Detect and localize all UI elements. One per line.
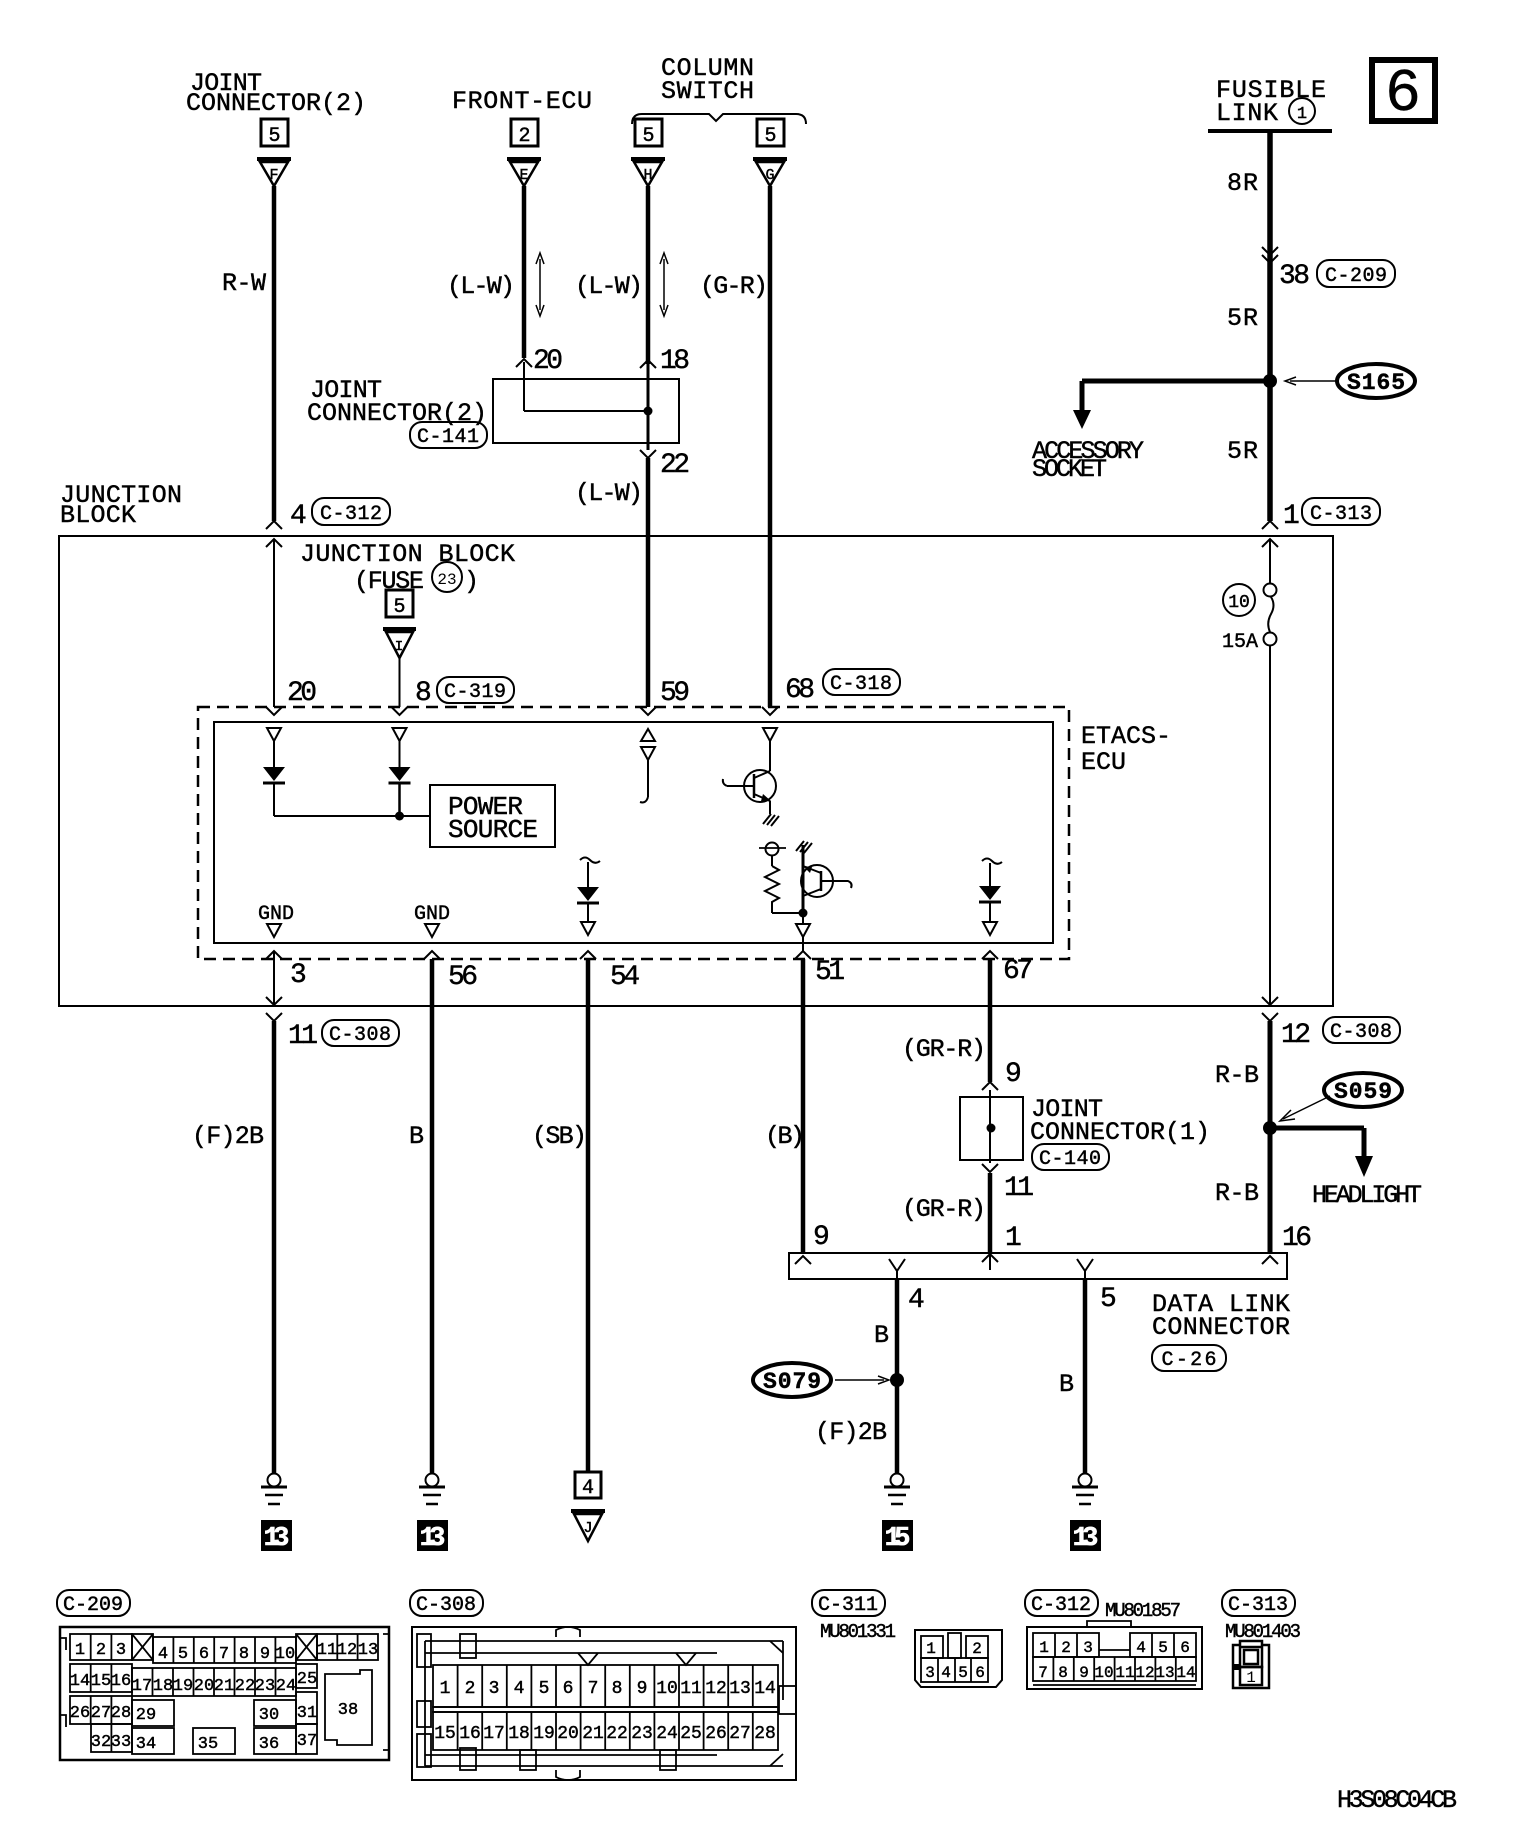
svg-text:24: 24 bbox=[656, 1724, 678, 1744]
svg-text:20: 20 bbox=[194, 1677, 214, 1696]
svg-text:5: 5 bbox=[764, 125, 776, 148]
svg-text:B: B bbox=[409, 1122, 424, 1151]
svg-text:4: 4 bbox=[1136, 1639, 1146, 1657]
svg-text:9: 9 bbox=[1079, 1664, 1089, 1682]
svg-text:G: G bbox=[765, 167, 774, 184]
svg-text:GND: GND bbox=[414, 903, 450, 926]
svg-text:2: 2 bbox=[1061, 1639, 1071, 1657]
svg-text:13: 13 bbox=[1073, 1524, 1099, 1554]
svg-text:5R: 5R bbox=[1227, 437, 1258, 466]
svg-text:8: 8 bbox=[239, 1645, 249, 1664]
svg-text:(L-W): (L-W) bbox=[575, 479, 643, 508]
svg-text:14: 14 bbox=[754, 1679, 776, 1699]
svg-text:2: 2 bbox=[96, 1641, 106, 1660]
svg-text:GND: GND bbox=[258, 903, 294, 926]
svg-text:C-313: C-313 bbox=[1228, 1594, 1288, 1617]
svg-text:3: 3 bbox=[489, 1679, 500, 1699]
svg-text:38: 38 bbox=[1279, 261, 1310, 292]
svg-text:5: 5 bbox=[539, 1679, 550, 1699]
svg-text:H3S08C04CB: H3S08C04CB bbox=[1337, 1786, 1457, 1815]
svg-text:(SB): (SB) bbox=[532, 1122, 587, 1151]
svg-text:R-W: R-W bbox=[222, 269, 266, 298]
svg-text:12: 12 bbox=[1135, 1664, 1154, 1682]
svg-text:32: 32 bbox=[91, 1733, 111, 1752]
svg-text:S079: S079 bbox=[763, 1369, 821, 1395]
svg-text:S059: S059 bbox=[1334, 1079, 1392, 1105]
svg-text:51: 51 bbox=[815, 957, 845, 988]
svg-text:8: 8 bbox=[612, 1679, 623, 1699]
svg-text:2: 2 bbox=[518, 125, 530, 148]
svg-text:): ) bbox=[464, 567, 479, 596]
svg-text:9: 9 bbox=[637, 1679, 648, 1699]
svg-text:33: 33 bbox=[111, 1733, 131, 1752]
svg-text:4: 4 bbox=[941, 1664, 951, 1682]
svg-text:ECU: ECU bbox=[1081, 748, 1126, 777]
svg-text:R-B: R-B bbox=[1215, 1061, 1259, 1090]
svg-text:56: 56 bbox=[448, 962, 478, 993]
svg-text:38: 38 bbox=[338, 1701, 358, 1720]
svg-text:C-312: C-312 bbox=[1031, 1594, 1091, 1617]
svg-text:3: 3 bbox=[116, 1641, 126, 1660]
svg-text:10: 10 bbox=[1228, 593, 1250, 613]
svg-text:1: 1 bbox=[75, 1641, 85, 1660]
svg-text:E: E bbox=[519, 167, 528, 184]
svg-text:26: 26 bbox=[705, 1724, 727, 1744]
svg-text:SOURCE: SOURCE bbox=[448, 815, 538, 845]
svg-text:13: 13 bbox=[420, 1524, 446, 1554]
svg-text:3: 3 bbox=[1083, 1639, 1093, 1657]
svg-text:(F)2B: (F)2B bbox=[192, 1122, 264, 1151]
svg-text:54: 54 bbox=[610, 962, 640, 993]
svg-text:28: 28 bbox=[111, 1704, 131, 1723]
svg-text:MU801403: MU801403 bbox=[1225, 1621, 1301, 1643]
svg-text:30: 30 bbox=[259, 1706, 279, 1725]
svg-text:1: 1 bbox=[440, 1679, 451, 1699]
svg-text:59: 59 bbox=[660, 678, 690, 709]
svg-text:(F)2B: (F)2B bbox=[815, 1418, 887, 1447]
svg-text:S165: S165 bbox=[1347, 370, 1405, 396]
svg-text:4: 4 bbox=[514, 1679, 525, 1699]
svg-text:C-209: C-209 bbox=[63, 1594, 123, 1617]
svg-text:2: 2 bbox=[972, 1640, 982, 1658]
svg-text:JUNCTION BLOCK: JUNCTION BLOCK bbox=[300, 540, 515, 569]
svg-text:7: 7 bbox=[588, 1679, 599, 1699]
svg-text:7: 7 bbox=[219, 1645, 229, 1664]
svg-text:23: 23 bbox=[437, 571, 456, 589]
svg-text:27: 27 bbox=[91, 1704, 111, 1723]
svg-text:12: 12 bbox=[337, 1641, 357, 1660]
svg-text:22: 22 bbox=[606, 1724, 628, 1744]
svg-text:C-318: C-318 bbox=[830, 673, 892, 696]
svg-text:5R: 5R bbox=[1227, 304, 1258, 333]
svg-text:13: 13 bbox=[1155, 1664, 1174, 1682]
svg-text:35: 35 bbox=[198, 1735, 218, 1754]
svg-text:1: 1 bbox=[1297, 105, 1307, 124]
svg-text:C-308: C-308 bbox=[329, 1024, 391, 1047]
svg-text:H: H bbox=[643, 167, 652, 184]
svg-text:C-308: C-308 bbox=[1330, 1021, 1392, 1044]
svg-text:F: F bbox=[269, 167, 278, 184]
svg-text:24: 24 bbox=[276, 1677, 296, 1696]
svg-text:ETACS-: ETACS- bbox=[1081, 722, 1171, 751]
svg-text:67: 67 bbox=[1003, 956, 1033, 987]
svg-text:B: B bbox=[874, 1321, 889, 1350]
svg-text:6: 6 bbox=[1385, 61, 1421, 129]
svg-text:3: 3 bbox=[290, 960, 307, 991]
svg-text:16: 16 bbox=[111, 1672, 131, 1691]
svg-text:6: 6 bbox=[975, 1664, 985, 1682]
svg-text:11: 11 bbox=[1115, 1664, 1134, 1682]
svg-text:21: 21 bbox=[582, 1724, 604, 1744]
svg-text:14: 14 bbox=[70, 1672, 90, 1691]
svg-text:C-312: C-312 bbox=[320, 503, 382, 526]
svg-text:16: 16 bbox=[459, 1724, 481, 1744]
svg-text:5: 5 bbox=[642, 125, 654, 148]
svg-text:3: 3 bbox=[925, 1664, 935, 1682]
svg-text:C-319: C-319 bbox=[444, 681, 506, 704]
svg-text:5: 5 bbox=[178, 1645, 188, 1664]
svg-text:1: 1 bbox=[1005, 1223, 1022, 1254]
svg-text:18: 18 bbox=[508, 1724, 530, 1744]
svg-text:1: 1 bbox=[926, 1640, 936, 1658]
svg-text:MU801331: MU801331 bbox=[820, 1621, 896, 1643]
svg-text:J: J bbox=[583, 1520, 592, 1537]
svg-text:19: 19 bbox=[533, 1724, 555, 1744]
svg-text:C-308: C-308 bbox=[416, 1594, 476, 1617]
svg-text:11: 11 bbox=[680, 1679, 702, 1699]
svg-text:FRONT-ECU: FRONT-ECU bbox=[452, 87, 592, 116]
svg-text:5: 5 bbox=[268, 125, 280, 148]
svg-text:31: 31 bbox=[297, 1704, 317, 1723]
svg-text:5: 5 bbox=[1158, 1639, 1168, 1657]
svg-text:(L-W): (L-W) bbox=[447, 272, 515, 301]
svg-text:6: 6 bbox=[199, 1645, 209, 1664]
svg-text:10: 10 bbox=[275, 1645, 295, 1664]
svg-text:MU801857: MU801857 bbox=[1105, 1600, 1181, 1622]
svg-text:13: 13 bbox=[264, 1524, 290, 1554]
svg-text:23: 23 bbox=[255, 1677, 275, 1696]
svg-text:C-313: C-313 bbox=[1310, 503, 1372, 526]
svg-text:16: 16 bbox=[1282, 1223, 1312, 1254]
svg-text:8R: 8R bbox=[1227, 169, 1258, 198]
svg-text:9: 9 bbox=[813, 1222, 830, 1253]
svg-text:CONNECTOR(2): CONNECTOR(2) bbox=[186, 89, 366, 118]
svg-text:12: 12 bbox=[1281, 1020, 1311, 1051]
svg-text:C-209: C-209 bbox=[1325, 265, 1387, 288]
svg-text:21: 21 bbox=[214, 1677, 234, 1696]
svg-text:1: 1 bbox=[1283, 501, 1300, 532]
svg-text:(G-R): (G-R) bbox=[700, 272, 768, 301]
svg-text:11: 11 bbox=[1004, 1173, 1034, 1204]
svg-text:8: 8 bbox=[1058, 1664, 1068, 1682]
svg-text:18: 18 bbox=[660, 346, 690, 377]
svg-text:15A: 15A bbox=[1222, 631, 1258, 654]
svg-text:10: 10 bbox=[656, 1679, 678, 1699]
svg-text:LINK: LINK bbox=[1216, 99, 1278, 128]
svg-text:12: 12 bbox=[705, 1679, 727, 1699]
svg-text:CONNECTOR(1): CONNECTOR(1) bbox=[1030, 1118, 1210, 1147]
svg-text:8: 8 bbox=[415, 678, 432, 709]
svg-text:36: 36 bbox=[259, 1735, 279, 1754]
svg-text:13: 13 bbox=[358, 1641, 378, 1660]
svg-text:5: 5 bbox=[393, 596, 405, 619]
svg-text:SWITCH: SWITCH bbox=[661, 77, 754, 106]
svg-text:13: 13 bbox=[729, 1679, 751, 1699]
svg-text:14: 14 bbox=[1176, 1664, 1195, 1682]
svg-text:HEADLIGHT: HEADLIGHT bbox=[1312, 1181, 1422, 1210]
svg-text:BLOCK: BLOCK bbox=[60, 501, 136, 530]
svg-text:22: 22 bbox=[235, 1677, 255, 1696]
svg-text:15: 15 bbox=[885, 1524, 911, 1554]
svg-text:6: 6 bbox=[1180, 1639, 1190, 1657]
svg-text:20: 20 bbox=[533, 346, 563, 377]
svg-text:9: 9 bbox=[1005, 1059, 1022, 1090]
svg-text:25: 25 bbox=[680, 1724, 702, 1744]
svg-text:9: 9 bbox=[260, 1645, 270, 1664]
svg-text:37: 37 bbox=[297, 1732, 317, 1751]
svg-text:4: 4 bbox=[582, 1477, 594, 1500]
svg-text:4: 4 bbox=[158, 1645, 168, 1664]
svg-text:C-141: C-141 bbox=[417, 426, 479, 449]
svg-text:15: 15 bbox=[434, 1724, 456, 1744]
svg-text:(GR-R): (GR-R) bbox=[902, 1035, 986, 1064]
svg-text:(GR-R): (GR-R) bbox=[902, 1195, 986, 1224]
svg-text:10: 10 bbox=[1094, 1664, 1113, 1682]
svg-text:1: 1 bbox=[1246, 1669, 1256, 1687]
svg-text:CONNECTOR(2): CONNECTOR(2) bbox=[307, 399, 487, 428]
svg-text:34: 34 bbox=[136, 1735, 156, 1754]
svg-text:CONNECTOR: CONNECTOR bbox=[1152, 1313, 1290, 1342]
svg-text:11: 11 bbox=[288, 1021, 318, 1052]
svg-text:7: 7 bbox=[1038, 1664, 1048, 1682]
svg-text:29: 29 bbox=[136, 1706, 156, 1725]
svg-text:26: 26 bbox=[70, 1704, 90, 1723]
svg-text:11: 11 bbox=[317, 1641, 337, 1660]
svg-text:15: 15 bbox=[91, 1672, 111, 1691]
svg-text:18: 18 bbox=[153, 1677, 173, 1696]
svg-text:C-140: C-140 bbox=[1039, 1148, 1101, 1171]
svg-text:I: I bbox=[395, 639, 403, 655]
svg-text:(L-W): (L-W) bbox=[575, 272, 643, 301]
svg-text:(B): (B) bbox=[765, 1122, 805, 1151]
svg-text:5: 5 bbox=[1100, 1284, 1117, 1315]
svg-text:6: 6 bbox=[563, 1679, 574, 1699]
svg-text:23: 23 bbox=[631, 1724, 653, 1744]
svg-text:19: 19 bbox=[173, 1677, 193, 1696]
svg-text:22: 22 bbox=[660, 450, 690, 481]
svg-text:4: 4 bbox=[290, 501, 307, 532]
svg-text:B: B bbox=[1059, 1370, 1074, 1399]
svg-text:C-311: C-311 bbox=[818, 1594, 878, 1617]
svg-text:25: 25 bbox=[297, 1670, 317, 1689]
svg-text:5: 5 bbox=[958, 1664, 968, 1682]
svg-text:28: 28 bbox=[754, 1724, 776, 1744]
svg-text:20: 20 bbox=[557, 1724, 579, 1744]
svg-text:2: 2 bbox=[465, 1679, 476, 1699]
svg-text:17: 17 bbox=[483, 1724, 505, 1744]
svg-text:20: 20 bbox=[287, 678, 317, 709]
svg-text:R-B: R-B bbox=[1215, 1179, 1259, 1208]
svg-text:68: 68 bbox=[785, 675, 815, 706]
svg-text:4: 4 bbox=[908, 1285, 925, 1316]
svg-text:27: 27 bbox=[729, 1724, 751, 1744]
svg-text:17: 17 bbox=[132, 1677, 152, 1696]
svg-text:1: 1 bbox=[1039, 1639, 1049, 1657]
svg-text:SOCKET: SOCKET bbox=[1032, 455, 1107, 484]
